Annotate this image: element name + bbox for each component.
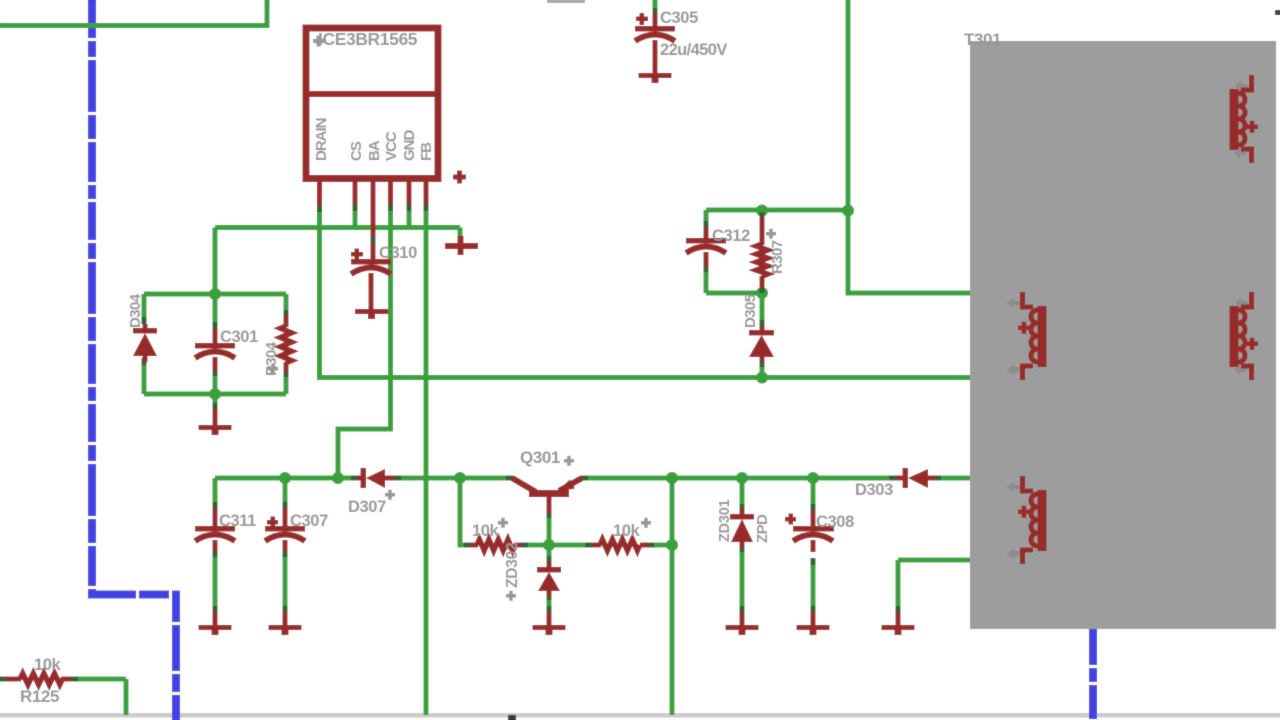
wire base node to 10k R2 [549, 543, 587, 548]
transistor Q301 [512, 478, 582, 513]
pin tips C308 [811, 504, 816, 511]
wire D304 group top rail [144, 292, 286, 297]
junction node 10k rail [454, 472, 466, 484]
wire Q301 base down [547, 512, 552, 545]
wire C301 upper lead [213, 294, 218, 324]
wire D305 anode to DRAIN net [760, 362, 765, 378]
wire C308 bottom lead [811, 560, 816, 608]
resistor R307 [757, 217, 768, 288]
wire ZD301 top lead [740, 478, 745, 506]
pin U301 VCC [388, 178, 393, 204]
wire to +supply symbol [458, 228, 463, 238]
capacitor C310 [351, 243, 391, 309]
junction node vcc rail [332, 472, 344, 484]
zener ZD302 [537, 562, 561, 596]
ground below C305 [639, 73, 672, 83]
pin tips D303 [889, 476, 896, 481]
wire top-left net [0, 0, 267, 26]
wire vertical net to C312 rail [848, 0, 972, 293]
supply + cross symbol [445, 236, 478, 255]
ground below C301 group [199, 409, 232, 435]
supply + small symbol [453, 171, 466, 184]
junction node D304 bottom [209, 388, 221, 400]
capacitor C311 [195, 508, 235, 552]
ground below C307 [269, 612, 302, 635]
pin tips R125 [0, 677, 6, 682]
transformer T301 winding 2 (mid right) [1230, 292, 1259, 380]
transformer T301 body [970, 41, 1276, 629]
capacitor C312 [686, 227, 726, 267]
pin tips C312 [704, 221, 709, 228]
label ZD302 plus [506, 591, 516, 601]
wire C307 top lead [283, 478, 288, 504]
wire C312 lower lead [704, 271, 709, 293]
pin tips D304 [142, 317, 147, 324]
pin tip U301 FB [424, 204, 429, 211]
diode D303 [896, 468, 936, 488]
resistor R308 10k [470, 540, 522, 551]
junction node D305 drain rail [756, 372, 768, 384]
diode D305 [749, 326, 774, 362]
junction node ZD301 rail [736, 472, 748, 484]
diode D304 [133, 324, 157, 362]
pin tips Q301 [506, 476, 513, 481]
wire stub to C305 [653, 0, 658, 10]
wire D304 upper lead [142, 294, 147, 322]
wire FB net down to bottom [424, 211, 429, 715]
wire rail piece Q301 to D303 [583, 476, 897, 481]
transformer T301 winding 1 (top right) [1230, 75, 1259, 163]
wire from y227 down to D304 group [213, 228, 218, 295]
pin tips R308 10k [464, 543, 471, 548]
pin tip C305 [653, 8, 658, 14]
wire R304 upper lead [284, 294, 289, 312]
wire base node to ZD302 [547, 545, 552, 558]
wire stub down to ground [896, 560, 901, 608]
op-amp U301 ICE3BR1565 body [306, 28, 438, 179]
junction node base row [543, 539, 555, 551]
wire R307 node down to D305 [760, 293, 765, 323]
wire DRAIN net to transformer [320, 212, 973, 378]
capacitor C308 [785, 510, 834, 552]
wire VCC/GND horizontal net y227 [215, 225, 460, 230]
diode D307 [357, 468, 395, 488]
pin U301 FB [424, 178, 429, 204]
wire C312 upper lead [704, 210, 709, 223]
transformer T301 winding 4 (bottom left) [1007, 476, 1047, 564]
ground below transformer stub [882, 612, 915, 635]
capacitor C305 [635, 13, 675, 73]
pin tip U301 DRAIN [317, 205, 322, 212]
wire ZD301 bottom lead [740, 547, 745, 608]
pin tips ZD301 [740, 504, 745, 511]
pin tips C311 [213, 502, 218, 509]
pin tip U301 CS [353, 204, 358, 211]
bus B2 bottom right [1089, 629, 1097, 720]
resistor R304 [281, 315, 292, 372]
pin U301 GND [407, 178, 412, 204]
pin U301 BA [371, 178, 376, 237]
pin tips ZD302 [547, 556, 552, 563]
value 10k R309 plus [641, 518, 651, 528]
pin tip U301 BA [371, 237, 376, 243]
ground below C308 [797, 612, 830, 635]
junction node emitter rail [666, 472, 678, 484]
bus B1 primary [88, 0, 96, 591]
wire 10k R2 to emitter node [648, 543, 672, 548]
junction node R307 bottom [756, 287, 768, 299]
wire C307 bottom lead [283, 556, 288, 608]
junction node C308 rail [807, 472, 819, 484]
wire GND pin stub [407, 211, 412, 228]
wire R125 to net [77, 677, 126, 682]
label R304 plus [268, 364, 278, 374]
pin tips D307 [351, 476, 358, 481]
wire to ground below D304 group [213, 394, 218, 406]
wire CS pin stub [353, 211, 358, 228]
ground below ZD302 [533, 612, 566, 635]
wire C311 bottom lead [213, 556, 218, 608]
wire R125 net down to bottom [124, 679, 129, 715]
wire C312 bottom to R307 node [706, 291, 762, 296]
resistor R309 10k [592, 540, 649, 551]
wire C301 lower lead [213, 372, 218, 394]
label R307 plus [766, 229, 776, 239]
label U301 origin + [313, 36, 324, 47]
wire emitter node down to bottom [670, 478, 675, 715]
pin tip U301 VCC [388, 204, 393, 211]
wire C308 top lead [811, 478, 816, 506]
junction node C307 rail [279, 472, 291, 484]
ground below ZD301 [726, 612, 759, 635]
junction node D304 top [209, 288, 221, 300]
pin U301 DRAIN [317, 178, 322, 206]
bottom rail tick [508, 715, 516, 720]
junction node emitter row [666, 539, 678, 551]
top gray text sliver [547, 0, 585, 3]
wire D304 lower lead [142, 361, 147, 394]
pin tips R304 [284, 310, 289, 317]
bus B1 corner horizontal [88, 591, 176, 599]
wire C312 R307 top rail [706, 208, 848, 213]
wire ZD302 anode down [547, 595, 552, 608]
wire R304 lower lead [284, 373, 289, 394]
wire junction down to 10k row [460, 478, 466, 545]
zener ZD301 [730, 509, 754, 548]
pin tips C307 [283, 502, 288, 509]
bus B1 corner patch left [88, 591, 96, 599]
pin tips C301 [213, 322, 218, 329]
label Q301 plus [564, 456, 574, 466]
transformer T301 winding 3 (mid left) [1007, 292, 1047, 380]
bus B1 corner patch right [172, 591, 180, 599]
wire rail piece D307 to Q301 [400, 476, 508, 481]
wire 10k R1 to base node [523, 543, 549, 548]
resistor R125 [5, 674, 72, 685]
pin tip U301 GND [407, 204, 412, 211]
capacitor C307 [265, 508, 305, 552]
ground below C310 [355, 309, 388, 319]
pin U301 CS [353, 178, 358, 204]
label D307 plus [385, 490, 395, 500]
ground below C311 [199, 612, 232, 635]
pin tips R307 [760, 212, 765, 218]
pin tip ground lead D304 group [213, 403, 218, 409]
pin tips ground row [213, 606, 218, 613]
capacitor C301 [195, 328, 235, 371]
wire D304 group bottom rail [144, 392, 286, 397]
pin tips D305 [760, 320, 765, 327]
wire VCC pin down and over to secondary rail [338, 211, 391, 478]
wire transformer stub to ground [898, 558, 972, 563]
top right dark tick [1275, 10, 1280, 15]
wire secondary rail left piece y478 [215, 476, 353, 481]
bus B1 down segment [172, 592, 180, 720]
junction node snubber corner [842, 205, 854, 217]
value 10k R308 plus [498, 518, 508, 528]
junction node C312 top [756, 205, 768, 217]
wire rail piece D303 to transformer [940, 476, 972, 481]
bottom rail gray line [0, 713, 1280, 718]
wire rail corner down to C311 [213, 478, 218, 504]
pin tips R309 10k [585, 543, 592, 548]
